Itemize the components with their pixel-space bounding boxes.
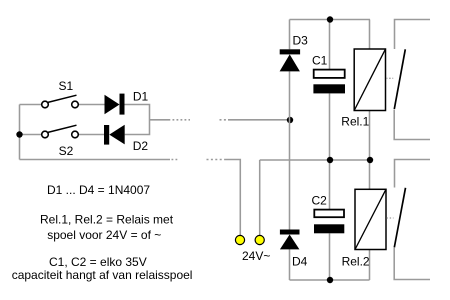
svg-text:Rel.1: Rel.1 xyxy=(341,114,369,128)
svg-text:D4: D4 xyxy=(292,255,308,269)
svg-text:D1: D1 xyxy=(133,89,149,103)
svg-text:24V~: 24V~ xyxy=(242,249,270,263)
svg-text:C1: C1 xyxy=(312,54,328,68)
svg-text:C1, C2 = elko 35V: C1, C2 = elko 35V xyxy=(49,255,147,269)
svg-text:C2: C2 xyxy=(312,194,328,208)
svg-text:capaciteit hangt af van relais: capaciteit hangt af van relaisspoel xyxy=(12,268,193,282)
svg-text:D1 ... D4 = 1N4007: D1 ... D4 = 1N4007 xyxy=(47,183,150,197)
svg-text:S1: S1 xyxy=(59,79,74,93)
svg-text:spoel voor 24V = of ~: spoel voor 24V = of ~ xyxy=(47,228,161,242)
svg-text:D2: D2 xyxy=(133,139,149,153)
svg-text:D3: D3 xyxy=(293,34,309,48)
svg-text:Rel.2: Rel.2 xyxy=(342,255,370,269)
svg-text:Rel.1, Rel.2 = Relais met: Rel.1, Rel.2 = Relais met xyxy=(40,213,174,227)
svg-text:S2: S2 xyxy=(59,144,74,158)
